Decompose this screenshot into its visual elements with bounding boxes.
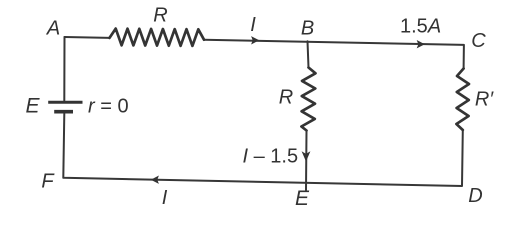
svg-text:R′: R′ bbox=[475, 89, 494, 111]
svg-text:I – 1.5: I – 1.5 bbox=[243, 146, 299, 168]
svg-text:D: D bbox=[468, 185, 482, 207]
svg-text:F: F bbox=[41, 171, 55, 193]
svg-text:1.5A: 1.5A bbox=[400, 16, 441, 38]
svg-text:R: R bbox=[153, 5, 167, 27]
svg-text:C: C bbox=[471, 30, 486, 52]
svg-text:I: I bbox=[162, 187, 168, 209]
svg-text:A: A bbox=[46, 18, 60, 40]
svg-text:E: E bbox=[25, 95, 40, 118]
svg-text:E: E bbox=[295, 187, 310, 210]
svg-text:r = 0: r = 0 bbox=[88, 96, 129, 118]
svg-text:R: R bbox=[279, 87, 293, 109]
svg-text:I: I bbox=[250, 14, 256, 36]
svg-text:B: B bbox=[301, 18, 314, 40]
